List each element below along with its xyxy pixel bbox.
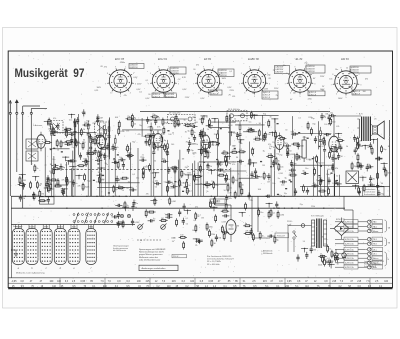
capacitor C37 [166,149,168,152]
component body blob [328,123,330,124]
capacitor C40 [155,118,157,121]
wire junction [227,156,228,157]
resistor R45 [151,116,153,118]
capacitor C3 [107,143,109,146]
wire drop [200,142,202,196]
resistor R82 [318,190,320,192]
capacitor C96 [215,234,217,237]
wire junction [329,262,330,263]
wire junction [277,208,278,209]
wire speaker top [333,116,335,136]
wire package leads [28,225,30,229]
wire junction [47,121,48,122]
table column ticks [59,278,61,288]
capacitor C66 [335,183,338,185]
wire junction [113,196,114,197]
capacitor C120 [265,195,268,197]
resistor R145 [252,233,254,235]
wire junction [25,196,26,197]
capacitor C1 [87,150,89,153]
resistor R20 [77,165,79,167]
resistor R121 [331,250,333,252]
voltage label box 2 of EL 84 [308,91,325,96]
bus line switch lower [11,224,135,226]
wire junction [330,264,331,265]
wire drop [71,168,73,196]
capacitor C135 [354,135,356,138]
wire drop [178,160,180,197]
component body blob [312,158,314,159]
resistor R79 [274,130,276,132]
capacitor C104 [47,175,49,178]
wire junction [47,187,48,188]
component body blob [187,126,189,127]
capacitor C54 [312,185,315,187]
tube pin diagram d [54,229,66,265]
component body blob [182,191,184,192]
voltage label box 1 of EF 89 [218,69,234,77]
capacitor C11 [122,162,124,165]
capacitor C67 [280,181,283,183]
resistor R143 [243,225,245,227]
capacitor C56 [318,180,321,182]
wire junction [101,167,102,168]
wire segment [274,118,276,157]
capacitor C82 [328,114,330,117]
wire drop [191,163,193,196]
boxed label EC92 [275,233,289,238]
capacitor C107 [33,192,35,195]
capacitor C108 [63,189,65,192]
wire junction [78,175,79,176]
capacitor C4 [46,181,48,184]
resistor R14 [52,127,54,129]
capacitor C138 [370,175,372,178]
capacitor C81 [332,165,334,168]
switch label box [40,197,55,204]
capacitor C38 [204,147,206,150]
HT rail top segment [140,111,330,113]
terminal group bracket 1 [385,220,387,232]
wire link [122,129,162,131]
capacitor C109 [358,188,360,191]
resistor R117 [327,245,329,247]
wire junction [96,196,97,197]
wire drop [333,154,335,196]
component body blob [260,161,262,162]
resistor R90 [310,127,312,129]
capacitor C87 [132,204,134,207]
component body blob [102,175,104,176]
resistor R63 [174,166,176,168]
resistor R131 [38,200,40,202]
capacitor C122 [57,123,59,126]
resistor R64 [209,141,211,143]
capacitor C50 [225,176,227,179]
component body blob [336,180,338,181]
wire junction [68,160,69,161]
capacitor C111 [358,141,360,144]
resistor R53 [186,187,188,189]
resistor R38 [226,173,228,175]
component body blob [218,143,220,144]
terminal Erde [335,266,344,268]
wire drop [334,174,336,197]
capacitor C95 [183,203,185,206]
tube ECC85 triode b [97,135,106,149]
resistor R37 [221,152,223,154]
frame bottom heavy rule [8,287,392,289]
wire junction [203,115,204,116]
resistor R157 [126,118,128,120]
capacitor C123 [97,114,99,117]
component stack 10 [320,127,322,131]
wire package leads [56,225,58,229]
capacitor C35 [145,139,147,142]
capacitor C49 [216,169,219,171]
resistor R86 [275,157,277,159]
power transformer secondary winding [324,220,327,246]
resistor R46 [225,159,227,161]
capacitor C77 [284,145,287,147]
component body blob [335,180,337,181]
terminal TA re [335,225,344,227]
component body blob [339,146,341,147]
resistor R175 [159,220,161,222]
electrolytic C50 [334,253,338,257]
capacitor C79 [338,153,340,156]
resistor R75 [292,143,294,145]
wire junction [102,196,103,197]
resistor R169 [357,153,359,155]
output transformer winding [358,119,360,138]
tube EF89 [201,135,210,149]
resistor R164 [230,151,232,153]
wire junction [22,174,23,175]
wire package leads [70,225,72,229]
bus line main [11,195,391,197]
wire junction [125,196,126,197]
wire link [209,127,230,129]
wire antenna drop 3 [22,114,24,208]
wire junction [212,141,213,142]
resistor R72 [329,151,331,153]
wire junction [187,210,188,211]
wire junction [323,208,324,209]
wire junction [66,208,67,209]
resistor R166 [238,151,240,153]
capacitor C46 [166,181,169,183]
resistor R171 [357,136,359,138]
wire link [211,121,236,123]
component body blob [270,166,272,167]
resistor R133 [66,176,68,178]
capacitor C75 [287,151,289,154]
wire junction [304,248,305,249]
resistor R108 [225,202,227,204]
wire segment [102,125,104,138]
terminal Netz a [335,257,344,259]
wire junction [362,177,363,178]
wire junction [273,208,274,209]
capacitor C131 [248,192,250,195]
wire junction [238,196,239,197]
capacitor C6 [62,188,64,191]
wire antenna feed elbow 1 [22,106,24,113]
resistor R42 [142,167,144,169]
resistor R29 [116,187,118,189]
capacitor C118 [267,235,270,237]
output transformer core [361,117,363,142]
capacitor C24 [100,151,102,154]
voltage label box 2 of EF 89 [210,90,222,95]
wire junction [298,208,299,209]
potentiometer P2 [161,225,166,230]
wire antenna feed elbow 2 [30,109,32,114]
wire link [56,132,97,134]
capacitor C97 [326,260,329,262]
resistor R49 [142,171,144,173]
capacitor C144 [179,209,181,212]
voltage label box 2 of ECH 81 [152,93,165,98]
capacitor C110 [366,164,368,167]
tube pin diagram c [40,229,52,265]
resistor R6 [120,177,122,179]
capacitor C115 [377,183,379,186]
bridge rectifier GL1 [334,222,349,236]
capacitor C43 [187,147,189,150]
resistor R129 [36,181,38,183]
wire junction [284,208,285,209]
resistor R178 [145,209,147,211]
capacitor C42 [206,125,209,127]
resistor R54 [194,175,196,177]
resistor R174 [363,184,365,186]
resistor R154 [64,128,66,130]
capacitor C44 [189,140,191,143]
capacitor C55 [291,133,294,135]
capacitor C85 [132,218,134,221]
resistor R152 [118,120,120,122]
box Aenderungen vorbehalten [139,265,178,270]
resistor R160 [66,129,68,131]
resistor R134 [54,185,56,187]
wire junction [188,174,189,175]
capacitor C59 [307,188,309,191]
wire drop [100,149,102,197]
wire junction [321,196,322,197]
component body blob [335,158,337,159]
resistor R5 [82,183,84,185]
capacitor C127 [75,138,77,141]
capacitor C78 [340,144,342,147]
component body blob [320,166,322,167]
resistor R66 [164,143,166,145]
wire segment [77,114,79,155]
component body blob [335,182,337,183]
resistor R21 [56,139,58,141]
component body blob [336,151,338,152]
wire junction [35,176,36,177]
wire junction [201,149,202,150]
component body blob [93,180,95,181]
capacitor C28 [154,183,157,185]
wire EM84 feed [215,204,231,206]
component body blob [61,151,63,152]
capacitor C99 [306,252,308,255]
resistor R135 [47,177,49,179]
capacitor C93 [222,232,225,234]
resistor R48 [149,163,151,165]
component body blob [113,158,115,159]
component stack 11 [105,125,107,129]
capacitor C106 [22,182,24,185]
capacitor C41 [147,117,149,120]
capacitor C98 [297,254,299,257]
resistor R100 [124,201,126,203]
resistor R92 [323,137,325,139]
wire junction [272,132,273,133]
wire drop [313,156,315,196]
resistor R107 [209,200,211,202]
wire drop [179,150,181,197]
capacitor C45 [139,159,142,161]
component body blob [108,192,110,193]
resistor R153 [48,118,50,120]
scan speckle noise [24,215,27,218]
resistor R155 [83,124,85,126]
resistor R11 [98,176,100,178]
capacitor C130 [65,143,68,145]
resistor R93 [258,129,260,131]
wire antenna drop 2 [16,114,18,172]
antenna A1 rod [9,101,11,113]
resistor R84 [314,167,316,169]
capacitor C142 [148,220,151,222]
resistor R71 [307,122,309,124]
table top rule [8,277,392,279]
capacitor C2 [51,131,54,133]
capacitor C19 [82,160,85,162]
capacitor C116 [368,184,371,186]
resistor R70 [266,155,268,157]
resistor R167 [239,181,241,183]
wire drop [174,170,176,197]
resistor R13 [48,184,50,186]
resistor R147 [274,235,276,237]
component body blob [53,148,55,149]
component body blob [186,179,188,180]
wire antenna drop 1 [9,114,11,196]
resistor R8 [98,150,100,152]
resistor R128 [33,192,35,194]
resistor R40 [226,115,228,117]
resistor R52 [201,130,203,132]
resistor R26 [43,142,45,144]
component stack 2 [161,133,163,137]
capacitor C10 [97,174,100,176]
wire drop [327,170,329,197]
voltage label box 1 of EM 84 [350,66,371,73]
capacitor C60 [253,175,256,177]
resistor R77 [328,187,330,189]
resistor R110 [195,212,197,214]
capacitor C18 [129,189,132,191]
wire left branch [11,231,14,233]
resistor R112 [195,224,197,226]
mains switch S1 [293,231,295,233]
wire junction [278,208,279,209]
resistor R69 [213,181,215,183]
coil box L2 [26,151,38,161]
resistor R35 [191,128,193,130]
resistor R39 [217,174,219,176]
resistor R159 [65,141,67,143]
resistor R165 [247,130,249,132]
note text right mid [363,187,385,196]
capacitor C25 [207,163,209,166]
wire segment [261,115,263,141]
resistor R96 [289,174,291,176]
resistor R95 [263,133,265,135]
wire junction [254,114,255,115]
component stack 5 [90,134,92,138]
capacitor C12 [116,176,118,179]
resistor R36 [204,184,206,186]
wire link [62,142,79,144]
terminal group bracket 2 [385,238,387,246]
wire link [97,186,131,188]
component body blob [184,187,186,188]
resistor R30 [227,184,229,186]
wire speaker link [372,124,373,127]
resistor R12 [94,137,96,139]
capacitor C23 [95,160,98,162]
component body blob [178,123,180,124]
resistor R99 [287,147,289,149]
component body blob [318,146,320,147]
capacitor C32 [206,181,208,184]
resistor R146 [277,210,279,212]
antenna terminal row [9,112,11,114]
bus line lower [11,207,345,209]
capacitor C80 [328,177,330,180]
tube ECC85 triode a [37,135,46,149]
resistor R151 [244,233,246,235]
component body blob [307,138,309,139]
capacitor C112 [366,166,369,168]
capacitor C9 [112,161,115,163]
wire junction [274,118,275,119]
dial lamps [120,214,123,217]
resistor R50 [184,124,186,126]
wire junction [338,133,339,134]
resistor R91 [264,132,266,134]
resistor R16 [100,147,102,149]
wire junction [266,196,267,197]
resistor R102 [116,222,118,224]
tube pin diagram f [86,229,97,265]
wire heater rail [300,185,390,187]
resistor R28 [75,139,77,141]
capacitor C64 [295,188,297,191]
resistor R139 [377,172,379,174]
resistor R10 [126,155,128,157]
wire antenna drop 4 [30,114,32,165]
coil box L1 [26,139,38,149]
resistor R113 [208,229,210,231]
wire junction [72,196,73,197]
